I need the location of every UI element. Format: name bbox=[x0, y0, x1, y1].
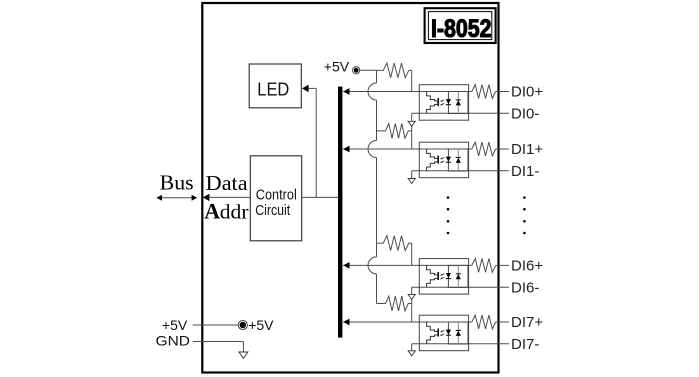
svg-text:Circuit: Circuit bbox=[255, 202, 291, 219]
svg-text:Data: Data bbox=[206, 171, 249, 195]
svg-text:DI7+: DI7+ bbox=[511, 314, 543, 331]
svg-text:+5V: +5V bbox=[248, 317, 274, 333]
svg-text:+5V: +5V bbox=[162, 317, 188, 333]
svg-text:DI6+: DI6+ bbox=[511, 258, 543, 275]
svg-text:LED: LED bbox=[257, 79, 289, 100]
svg-text:+5V: +5V bbox=[324, 58, 350, 74]
svg-text:A: A bbox=[204, 199, 220, 224]
svg-text:DI0+: DI0+ bbox=[511, 84, 543, 101]
svg-text:I-8052: I-8052 bbox=[431, 15, 492, 43]
svg-text:ddr: ddr bbox=[220, 202, 249, 224]
svg-text:DI7-: DI7- bbox=[511, 336, 539, 353]
svg-text:GND: GND bbox=[156, 332, 191, 348]
svg-text:DI1+: DI1+ bbox=[511, 141, 543, 158]
svg-text:DI6-: DI6- bbox=[511, 279, 539, 296]
svg-text:DI1-: DI1- bbox=[511, 163, 539, 180]
svg-text:Bus: Bus bbox=[160, 171, 194, 195]
svg-text:DI0-: DI0- bbox=[511, 106, 539, 123]
